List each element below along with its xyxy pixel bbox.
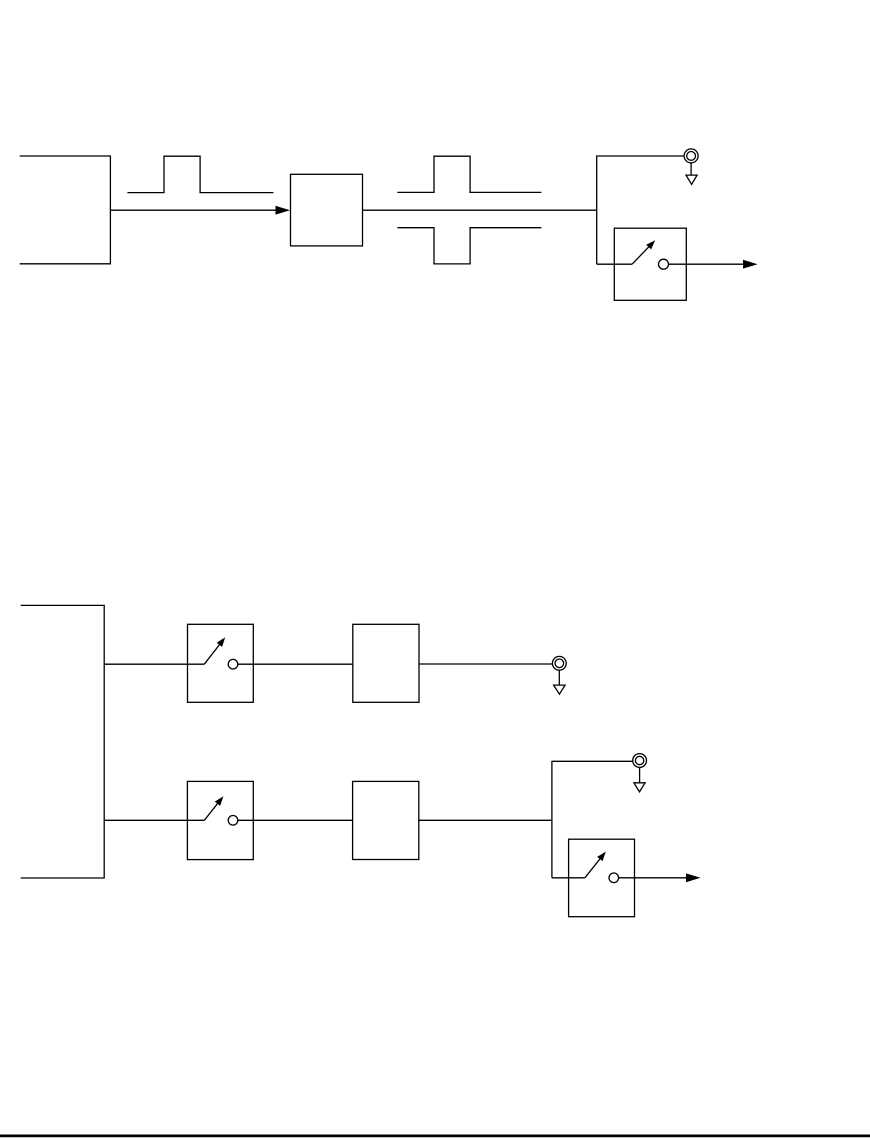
waveform W1 (unipolar pulse above wire) [127,156,273,192]
wire U1 output to U2 [110,209,276,211]
wire S2 to U4 [238,663,353,665]
switch S3 (lower branch boxed switch) [187,781,253,859]
ground arrow of J3 [639,767,641,782]
connector J1 (output jack, double circle) [684,149,698,163]
wire S1 output [669,263,745,265]
block U3 (bottom diagram source block, open left side) [21,605,105,878]
switch S4 (output boxed switch) [569,839,635,917]
arrowhead into U2 [276,206,291,215]
ground arrow of J1 [690,163,692,175]
node N1 vertical wire [596,155,598,264]
block U1 (top diagram source block, open left side) [20,156,111,264]
node N2 vertical wire [551,761,553,878]
wire U2 to node N1 [363,209,597,211]
switch S1 (boxed SPST switch) [614,228,686,300]
waveform W2 lower (negative pulse) [397,228,541,264]
ground arrow of J2 [558,670,560,685]
block U5 (lower branch processing block) [353,781,419,859]
wire S4 output [619,877,687,879]
wire U4 to connector J2 [419,663,552,665]
wire N1 to connector J1 [597,155,684,157]
wire N2 to connector J3 [552,760,633,762]
footer rule [0,1135,870,1138]
wire S3 to U5 [238,819,353,821]
block U2 (top diagram processing block) [291,174,363,246]
connector J2 (upper branch output jack) [552,656,566,670]
wire U3 to switch S3 [104,819,204,821]
arrowhead S4 output [686,873,701,882]
wire U5 to node N2 [419,819,552,821]
arrowhead S1 output [743,260,758,269]
wire U3 to switch S2 [104,663,204,665]
switch S2 (upper branch boxed switch) [188,624,254,702]
waveform W2 upper (positive pulse) [397,156,541,192]
wire N2 to switch S4 [552,877,585,879]
block U4 (upper branch processing block) [353,624,419,702]
wire N1 to switch S1 [597,263,632,265]
connector J3 (lower branch output jack) [633,754,647,768]
